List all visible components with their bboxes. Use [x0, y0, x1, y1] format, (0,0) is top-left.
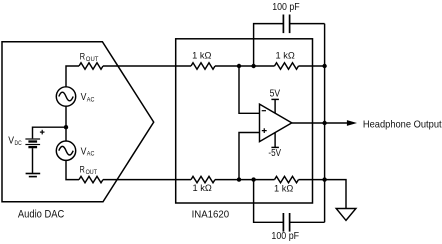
- AC source VAC (top): [56, 87, 75, 106]
- VAC label (bottom): [81, 146, 95, 157]
- resistor ROUT (bottom): [79, 176, 103, 182]
- node: top row feedback: [322, 64, 326, 68]
- svg-text:R: R: [80, 165, 86, 175]
- svg-text:OUT: OUT: [86, 56, 99, 63]
- wire: battery to ground: [32, 148, 34, 173]
- wire: op-amp output: [292, 122, 347, 124]
- wire: top cap branch: [254, 24, 325, 66]
- VAC label (top): [81, 92, 95, 103]
- svg-text:1 kΩ: 1 kΩ: [276, 51, 295, 61]
- wire: to VDC battery: [33, 127, 67, 138]
- svg-text:1 kΩ: 1 kΩ: [274, 183, 293, 193]
- Audio DAC block outline: [2, 42, 154, 202]
- svg-text:1 kΩ: 1 kΩ: [192, 51, 211, 61]
- svg-text:INA1620: INA1620: [192, 210, 230, 221]
- supply -5V: [271, 132, 279, 147]
- wire: bottom DAC output row: [66, 160, 325, 179]
- svg-text:5V: 5V: [270, 89, 281, 100]
- battery VDC: [25, 139, 40, 147]
- resistor 1k (top-left): [191, 63, 215, 69]
- resistor 1k (bottom-right): [275, 176, 299, 182]
- capacitor 100pF (top): [283, 15, 289, 34]
- resistor 1k (bottom-left): [191, 176, 215, 182]
- ROUT label (bottom): [80, 165, 98, 176]
- svg-text:DC: DC: [15, 140, 22, 147]
- svg-text:R: R: [80, 51, 86, 61]
- battery + sign: [40, 130, 45, 135]
- resistor 1k (top-right): [275, 63, 299, 69]
- node: bottom row noninverting tap: [237, 177, 241, 181]
- svg-text:OUT: OUT: [86, 169, 98, 176]
- svg-text:AC: AC: [87, 151, 95, 158]
- svg-text:Headphone Output: Headphone Output: [363, 120, 442, 131]
- ROUT label (top): [80, 51, 99, 62]
- node: top row cap tap: [251, 64, 255, 68]
- wire: between AC sources: [65, 106, 67, 141]
- INA1620 block outline: [176, 39, 313, 203]
- svg-text:V: V: [81, 146, 87, 157]
- node: output feedback junction: [322, 121, 326, 125]
- svg-text:100 pF: 100 pF: [272, 2, 300, 13]
- wire: top DAC output row: [66, 66, 325, 87]
- svg-text:V: V: [81, 92, 87, 103]
- arrow: headphone output: [347, 120, 357, 126]
- node: top row inverting tap: [237, 64, 241, 68]
- AC source VAC (bottom): [56, 141, 75, 160]
- svg-text:1 kΩ: 1 kΩ: [193, 183, 212, 193]
- node: bottom row cap tap: [251, 177, 255, 181]
- supply 5V: [271, 99, 279, 113]
- op-amp U1: [260, 104, 292, 142]
- ground (right, open triangle): [336, 209, 356, 221]
- wire: inverting input: [239, 66, 260, 113]
- wire: bottom cap branch: [254, 180, 325, 223]
- resistor ROUT (top): [79, 63, 103, 69]
- svg-text:AC: AC: [87, 96, 95, 103]
- wire: noninverting input: [239, 133, 260, 180]
- VDC label: [8, 136, 22, 147]
- svg-text:100 pF: 100 pF: [271, 231, 299, 242]
- wire: bottom row to ground: [325, 180, 346, 208]
- node: bottom row feedback: [322, 177, 326, 181]
- node: DAC mid junction: [64, 125, 68, 129]
- svg-text:V: V: [8, 136, 14, 147]
- svg-text:-5V: -5V: [268, 148, 281, 159]
- svg-text:Audio DAC: Audio DAC: [18, 208, 64, 220]
- capacitor 100pF (bottom): [283, 213, 289, 232]
- ground (battery): [26, 174, 41, 177]
- wire: feedback vertical: [324, 24, 326, 223]
